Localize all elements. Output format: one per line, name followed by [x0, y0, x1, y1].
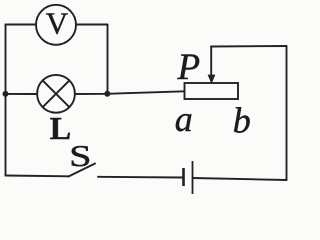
wire left vertical [5, 25, 7, 176]
voltmeter V1 circle [36, 5, 76, 45]
svg-text:b: b [233, 101, 251, 141]
junction node left [3, 91, 9, 97]
wire lamp to rheostat [75, 91, 185, 94]
svg-text:L: L [50, 110, 71, 146]
svg-text:S: S [69, 138, 91, 172]
wiper arrowhead [208, 75, 216, 84]
wire lamp row left [6, 93, 38, 95]
wire top right [211, 45, 287, 48]
wire vertical down from top corner [107, 25, 109, 94]
battery long plate (+) [192, 161, 194, 194]
junction node mid [104, 91, 110, 97]
svg-text:a: a [175, 99, 193, 139]
svg-text:P: P [177, 47, 201, 88]
wire bottom left to switch [6, 175, 69, 178]
wire top-left to voltmeter [6, 24, 37, 26]
wiper wire vertical [210, 47, 212, 78]
wire battery to switch [98, 176, 184, 179]
wire right vertical [286, 46, 288, 180]
wire bottom right to battery [193, 178, 287, 180]
switch S blade [69, 164, 96, 177]
rheostat P body [185, 83, 239, 99]
lamp L circle [37, 75, 75, 113]
svg-text:V: V [46, 5, 69, 40]
battery short plate (-) [182, 168, 185, 186]
wire voltmeter to top corner [76, 24, 108, 26]
lamp L cross [43, 80, 70, 107]
